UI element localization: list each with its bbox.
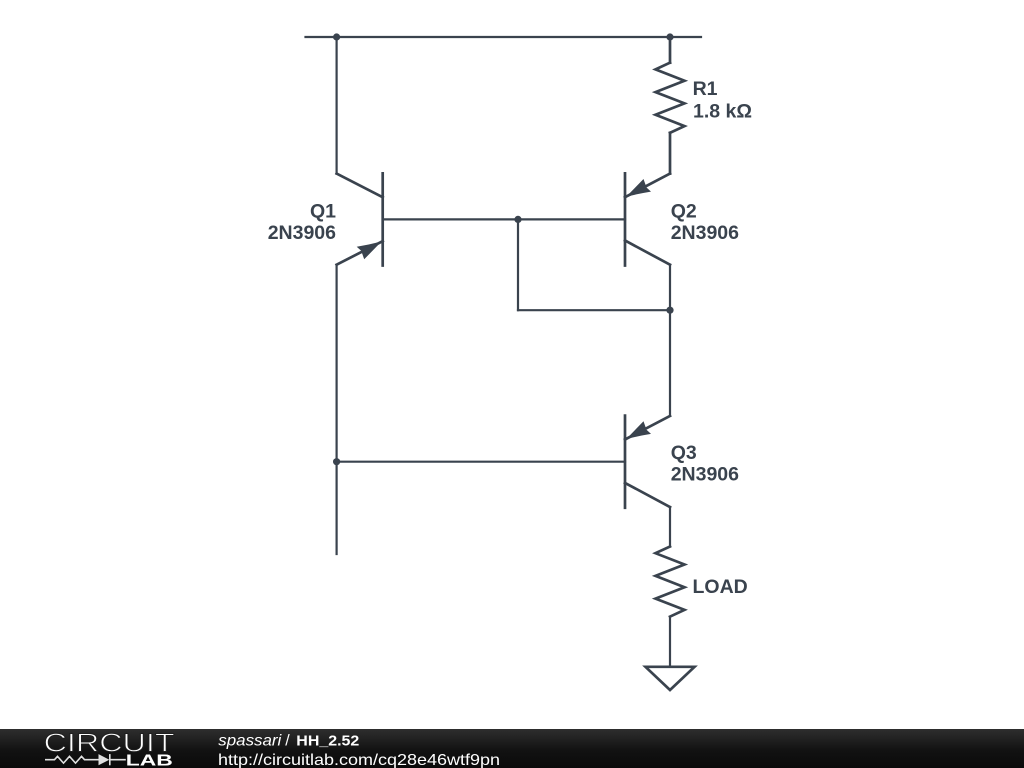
ground: [646, 667, 695, 690]
svg-text:http://circuitlab.com/cq28e46w: http://circuitlab.com/cq28e46wtf9pn: [218, 752, 500, 768]
svg-text:2N3906: 2N3906: [268, 222, 336, 244]
node junction top-left: [333, 33, 340, 40]
svg-text:2N3906: 2N3906: [671, 464, 739, 486]
node junction collector Q2: [666, 307, 673, 314]
svg-text:2N3906: 2N3906: [671, 222, 739, 244]
transistor Q3 body: [625, 416, 670, 508]
footer bar: [0, 729, 1024, 768]
svg-text:Q2: Q2: [671, 200, 697, 222]
wire Q1 collector lead: [336, 37, 338, 174]
svg-text:R1: R1: [693, 78, 718, 100]
wire Q3 base: [337, 461, 625, 463]
svg-text:1.8 kΩ: 1.8 kΩ: [693, 101, 752, 123]
wire base node down: [517, 219, 519, 310]
svg-text:spassari: spassari: [218, 732, 281, 749]
svg-text:Q3: Q3: [671, 442, 697, 464]
logo squiggle: [45, 754, 126, 765]
svg-text:HH_2.52: HH_2.52: [296, 733, 359, 749]
node junction top-right: [666, 33, 673, 40]
transistor Q1 body: [337, 173, 383, 265]
node junction base center: [514, 216, 521, 223]
transistor Q2 body: [625, 173, 670, 265]
svg-text:LOAD: LOAD: [693, 576, 748, 598]
resistor LOAD: [656, 547, 685, 617]
wire Q2 collector lead: [669, 265, 671, 416]
resistor R1: [656, 37, 685, 174]
node junction Q3 base: [333, 458, 340, 465]
wire LOAD to ground: [669, 617, 671, 667]
svg-text:LAB: LAB: [126, 753, 173, 768]
svg-text:/: /: [285, 732, 290, 749]
wire Q1 emitter lead: [336, 265, 338, 554]
wire Q3 collector lead: [669, 507, 671, 547]
svg-text:Q1: Q1: [310, 200, 336, 222]
wire base node right: [518, 309, 670, 311]
wire Q1-Q2 base bus: [383, 218, 625, 220]
wire top rail: [306, 36, 702, 38]
